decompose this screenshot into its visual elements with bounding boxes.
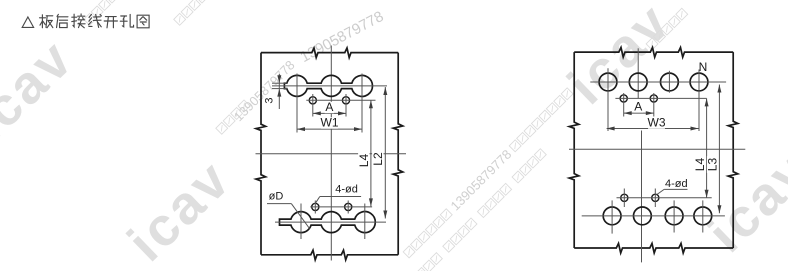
dimension A (right) (624, 111, 654, 115)
dimension L4 (left) (369, 100, 373, 206)
dimension 3 line and arrows (278, 74, 280, 83)
left bottom small hole 2 vertical (347, 201, 349, 214)
dimension 3 extension lines (272, 82, 288, 84)
svg-text:3: 3 (264, 97, 276, 103)
svg-text:W3: W3 (648, 116, 666, 130)
watermark text line P1 upper (401, 86, 576, 261)
svg-text:4-ød: 4-ød (335, 184, 358, 196)
left top small hole 1 vertical (312, 94, 314, 117)
svg-text:A: A (325, 100, 333, 114)
left bottom slotted hole (3 poles) (280, 212, 376, 233)
left top slotted hole (3 poles) (284, 75, 372, 96)
watermark big phone number (297, 8, 386, 66)
right bottom small hole 2 vertical (654, 189, 656, 208)
watermark top edge fragment 1 (84, 0, 118, 25)
left top circle 1 centerline (296, 74, 298, 133)
left top circle 3 centerline (361, 74, 363, 133)
left top small hole 2 (342, 97, 349, 104)
left bottom row centerline (275, 221, 386, 223)
dimension W1 (297, 127, 362, 131)
right bottom hole 4 (694, 207, 712, 225)
right top hole N (690, 73, 708, 91)
dimension A (left) (313, 111, 346, 115)
right top hole 1 vertical (607, 68, 609, 131)
label L2 (372, 151, 383, 168)
right bottom hole 3 (665, 207, 683, 225)
svg-text:W1: W1 (321, 116, 339, 130)
label W1 (321, 117, 338, 128)
left bottom small hole 1 vertical (314, 201, 316, 214)
right bottom hole 1 (603, 207, 621, 225)
right bottom small hole 1 (621, 194, 628, 201)
right top small holes line (615, 97, 706, 99)
left panel horizontal centerline (256, 153, 407, 155)
svg-text:L4: L4 (357, 154, 371, 168)
left panel outline with break symbols (256, 48, 403, 260)
label L4 (left) (358, 152, 369, 169)
right panel horizontal centerline (569, 148, 745, 150)
left bottom circle 1 centerline (300, 204, 302, 240)
right bottom hole 2 (634, 207, 652, 225)
svg-text:L2: L2 (371, 152, 385, 166)
right top hole 3 (661, 73, 679, 91)
watermark text line P2 squares (216, 100, 250, 134)
right top hole 3 vertical (668, 71, 670, 93)
left bottom small holes line (310, 206, 372, 208)
right panel outline with break symbols (569, 48, 738, 254)
right bottom small hole 2 (652, 194, 659, 201)
left top small hole 1 (309, 97, 316, 104)
left bottom small hole 2 (345, 203, 352, 210)
left top small holes line (306, 99, 375, 101)
svg-text:øD: øD (269, 191, 284, 203)
label W3 (648, 117, 665, 128)
right top small hole 2 (650, 95, 657, 102)
right top small hole 1 vertical (623, 93, 625, 117)
left bottom circle 3 centerline (364, 204, 366, 240)
title text 板后接线开孔图 (hand-drawn strokes) (40, 14, 150, 28)
label A (left) (325, 102, 334, 113)
label oD with leader (267, 191, 310, 229)
left top row centerline (272, 85, 387, 87)
watermark top edge fragment 2 (174, 0, 208, 25)
right bottom small holes line (617, 197, 712, 199)
svg-text:L3: L3 (706, 158, 720, 172)
watermark text line P2 number (231, 57, 298, 124)
right bottom hole 3 vertical (673, 200, 675, 232)
right bottom hole 4 vertical (702, 200, 704, 232)
right panel bottom vertical centerline (641, 131, 643, 263)
dimension W3 (607, 127, 699, 131)
watermark icav top-right (557, 0, 683, 116)
label A (right) (634, 101, 643, 112)
right top small hole 1 (620, 95, 627, 102)
right top hole 1 (599, 73, 617, 91)
left panel vertical centerline (330, 46, 332, 261)
dimension L3 (717, 85, 721, 214)
watermark text line P1 lower (408, 149, 546, 276)
left bottom small hole 1 (312, 203, 319, 210)
right top hole 2 (629, 73, 647, 91)
svg-text:A: A (634, 99, 642, 113)
watermark icav top-left (0, 28, 85, 153)
left top small hole 2 vertical (345, 94, 347, 117)
dimension L4 (right) (705, 98, 709, 197)
watermark text line top-right (646, 8, 688, 50)
label L3 (707, 156, 718, 173)
right top row centerline (590, 81, 726, 83)
right top hole N vertical (698, 70, 700, 132)
dimension L2 (383, 87, 387, 219)
label L4 (right) (694, 156, 705, 173)
title triangle (22, 17, 33, 27)
watermark icav bottom-right (697, 139, 788, 264)
right bottom hole 1 vertical (611, 200, 613, 233)
right bottom row centerline (582, 215, 725, 217)
right bottom small hole 1 vertical (623, 189, 625, 208)
label 4-od (left) with leader (315, 184, 361, 205)
svg-text:4-ød: 4-ød (665, 178, 688, 190)
label 4-od (right) with leader (656, 178, 687, 195)
svg-text:N: N (699, 60, 708, 74)
right panel top vertical centerline (637, 48, 639, 98)
watermark icav bottom-left (117, 148, 243, 273)
right top small hole 2 vertical (653, 93, 655, 117)
